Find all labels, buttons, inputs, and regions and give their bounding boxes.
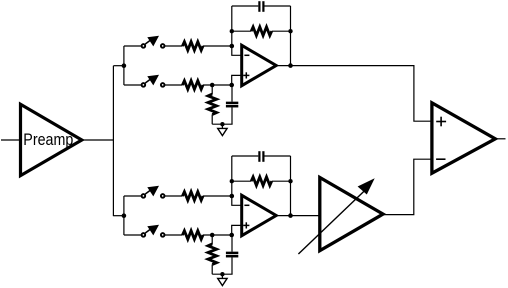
wire R1 to inverting node	[203, 45, 232, 47]
switch SW1	[142, 36, 165, 48]
resistor R5	[183, 192, 204, 201]
junction inverting input node	[230, 194, 235, 199]
wire feedback mid left	[232, 180, 251, 182]
junction feedback mid left	[230, 179, 234, 183]
wire feedback left vertical	[231, 156, 233, 196]
wire R2 to noninverting node	[203, 84, 232, 86]
wire branch vertical	[123, 196, 125, 235]
switch SW3	[142, 186, 165, 198]
ground GND2	[218, 274, 227, 285]
resistor R3 shunt to ground	[208, 85, 217, 124]
wire U4 output to U5 inverting input	[383, 159, 432, 214]
junction ground bar	[220, 122, 224, 126]
resistor R7 shunt to ground	[208, 235, 217, 274]
wire feedback top right	[265, 155, 291, 157]
switch SW2	[142, 75, 165, 87]
resistor R2	[183, 81, 204, 90]
junction ground bar	[220, 272, 224, 276]
capacitor C1 feedback	[259, 1, 263, 12]
wire feedback mid right	[272, 30, 291, 32]
wire input	[1, 139, 21, 141]
resistor R1	[183, 42, 204, 51]
junction feedback mid left	[230, 29, 234, 33]
wire bus-to-branches connector	[113, 215, 124, 217]
wire feedback top left	[232, 155, 258, 157]
op-amp U2	[242, 45, 277, 85]
wire switch to resistor R6	[165, 234, 183, 236]
wire U2 output to U5 noninverting input	[276, 66, 432, 122]
switch SW4	[142, 225, 165, 237]
junction op-amp output node	[288, 63, 293, 68]
wire U3 output to U4 input	[276, 215, 320, 217]
wire branch vertical	[123, 46, 125, 85]
wire to noninverting input pin	[232, 75, 242, 85]
junction op-amp output node	[288, 213, 293, 218]
wire to inverting input pin	[232, 46, 242, 55]
wire switch to resistor R5	[165, 195, 183, 197]
junction feedback mid right	[288, 29, 292, 33]
wire ground bar	[212, 123, 232, 125]
wire to switch SW4	[124, 234, 141, 236]
wire feedback mid right	[272, 180, 291, 182]
preamp U1	[21, 104, 82, 175]
wire switch to resistor R2	[165, 84, 183, 86]
capacitor C4 shunt to ground	[226, 235, 238, 274]
wire feedback right vertical	[290, 156, 292, 216]
junction shunt RC tap	[210, 83, 215, 88]
wire ground bar	[212, 273, 232, 275]
capacitor C2 shunt to ground	[226, 85, 238, 124]
wire to inverting input pin	[232, 196, 242, 205]
resistor R8 feedback	[251, 177, 272, 186]
junction feedback mid right	[288, 179, 292, 183]
wire output	[495, 138, 505, 140]
wire preamp output	[82, 139, 114, 141]
wire feedback right vertical	[290, 6, 292, 66]
junction shunt RC tap	[210, 233, 215, 238]
resistor R4 feedback	[251, 27, 272, 36]
capacitor C3 feedback	[259, 151, 263, 162]
wire bus-to-branches connector	[113, 65, 124, 67]
wire feedback left vertical	[231, 6, 233, 46]
wire to switch SW3	[124, 195, 141, 197]
junction noninverting input node	[229, 233, 234, 238]
op-amp U3	[242, 195, 277, 235]
junction node at branch split	[122, 63, 127, 68]
junction inverting input node	[230, 44, 235, 49]
wire feedback mid left	[232, 30, 251, 32]
wire feedback top left	[232, 5, 258, 7]
variable-gain amplifier U4	[298, 178, 383, 255]
junction node at branch split	[122, 213, 127, 218]
wire feedback top right	[265, 5, 291, 7]
wire R6 to noninverting node	[203, 234, 232, 236]
wire switch to resistor R1	[165, 45, 183, 47]
ground GND1	[218, 124, 227, 135]
wire to switch SW1	[124, 45, 141, 47]
junction noninverting input node	[229, 83, 234, 88]
wire R5 to inverting node	[203, 195, 232, 197]
svg-text:Preamp: Preamp	[23, 130, 73, 149]
wire bus vertical	[112, 66, 114, 216]
op-amp U5	[432, 103, 495, 173]
wire to switch SW2	[124, 84, 141, 86]
wire to noninverting input pin	[232, 225, 242, 235]
resistor R6	[183, 231, 204, 240]
